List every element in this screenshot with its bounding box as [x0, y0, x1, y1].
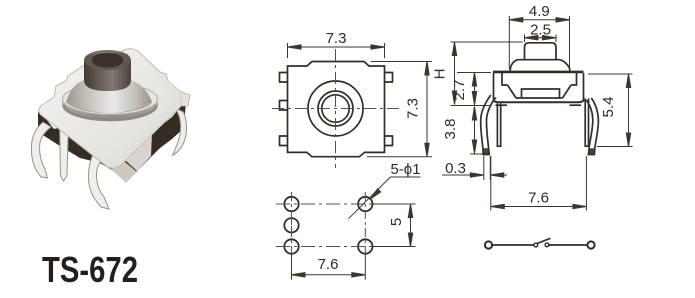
- svg-text:5-ϕ1: 5-ϕ1: [390, 161, 420, 178]
- face shading right: [110, 52, 185, 168]
- circuit symbol (SPST switch): [485, 238, 595, 248]
- svg-text:TS-672: TS-672: [42, 249, 138, 290]
- label 5-phi1 with leader: [349, 177, 421, 219]
- svg-text:7.3: 7.3: [405, 98, 422, 119]
- dimension 7.6 (footprint bottom): [292, 254, 366, 280]
- right tab box: [571, 73, 577, 85]
- svg-text:7.6: 7.6: [318, 256, 339, 273]
- right tab top: [385, 73, 393, 83]
- button top rim: [84, 50, 131, 70]
- light front wedge: [114, 119, 152, 171]
- dimension 2.7 (body height): [457, 73, 491, 106]
- right foot bar: [570, 104, 582, 106]
- cap (dome housing): [510, 60, 569, 72]
- hole inner shadow: [92, 54, 124, 61]
- outer circle: [308, 81, 363, 136]
- button ring outer: [318, 91, 353, 126]
- back-left leg: [60, 118, 69, 181]
- 3D photo of switch: [31, 49, 190, 209]
- svg-text:H: H: [432, 69, 449, 80]
- switch lever: [537, 238, 551, 244]
- button hole: [92, 54, 124, 68]
- inner dome right slant: [563, 85, 572, 98]
- dimension 0.3 (leg thickness): [442, 156, 507, 180]
- svg-text:0.3: 0.3: [445, 160, 466, 177]
- dimension 2.5 (stem width): [525, 35, 557, 43]
- flange top surface: [63, 84, 158, 115]
- front-center leg: [88, 151, 109, 209]
- hole bottom-left: [284, 239, 298, 253]
- left terminal: [485, 241, 492, 248]
- top view drawing: [280, 62, 393, 157]
- cone: [66, 80, 152, 113]
- svg-text:7.6: 7.6: [528, 190, 549, 207]
- left tab bottom: [280, 136, 288, 146]
- body top face: [39, 49, 185, 169]
- hole bottom-right: [358, 239, 372, 253]
- dimension 5.4 (right, cap to leg): [588, 74, 633, 147]
- button rim highlight: [86, 51, 129, 57]
- left back leg (straight): [497, 103, 500, 146]
- left foot bar: [496, 104, 508, 106]
- dimension 4.9 (cap width): [509, 16, 569, 69]
- inner dome bottom: [516, 97, 563, 99]
- svg-text:5.4: 5.4: [600, 97, 617, 118]
- right front leg (curved): [591, 98, 598, 148]
- svg-text:5: 5: [388, 218, 405, 226]
- footprint: 5 holes: [284, 197, 372, 254]
- dark under-body base: [38, 100, 186, 182]
- right corner tab: [181, 92, 190, 106]
- right tab bottom: [385, 136, 393, 146]
- dimension 7.3 horizontal (top): [288, 43, 385, 58]
- contact pole left: [534, 243, 538, 247]
- hole middle-left: [284, 218, 298, 232]
- front-left leg: [31, 122, 51, 178]
- left tab box: [502, 73, 508, 85]
- left tab top: [280, 73, 288, 83]
- contact pole right: [545, 243, 549, 247]
- body bottom rounded: [494, 100, 584, 103]
- dimension H (left, stem top to body bottom): [451, 42, 523, 106]
- wire right: [549, 244, 587, 246]
- button ring inner: [322, 95, 349, 122]
- svg-text:7.3: 7.3: [326, 30, 347, 47]
- right terminal: [587, 241, 594, 248]
- button cylinder side: [84, 60, 131, 91]
- dimension 7.6 (side view leg span): [491, 156, 587, 211]
- flange bottom crease: [64, 105, 157, 120]
- inner dome left slant: [508, 85, 517, 98]
- footprint center lines: [276, 192, 381, 258]
- dimension 7.3 vertical (right of top view): [367, 62, 432, 157]
- left tab middle: [280, 101, 288, 111]
- wire left: [493, 244, 534, 246]
- stem (button shaft): [525, 43, 557, 60]
- right back leg (straight): [585, 99, 588, 147]
- center lines of top view: [272, 49, 400, 168]
- svg-text:4.9: 4.9: [529, 3, 550, 20]
- flange lower lip: [62, 89, 158, 120]
- hole top-right: [358, 197, 372, 211]
- hole top-left: [284, 197, 298, 211]
- cone base shadow arc: [66, 102, 152, 113]
- dimension 3.8 (leg length): [470, 107, 483, 155]
- inner window rectangle: [522, 89, 560, 98]
- light bottom tip: [111, 152, 137, 183]
- body left side: [493, 73, 495, 100]
- svg-text:2.7: 2.7: [451, 80, 468, 101]
- svg-text:2.5: 2.5: [530, 22, 551, 39]
- switch body outline (top view): [288, 62, 385, 157]
- dark wedge over light band: [128, 118, 152, 134]
- dimension 5 (footprint right): [373, 204, 416, 247]
- right leg: [173, 108, 187, 156]
- svg-text:3.8: 3.8: [442, 119, 459, 140]
- body top thick line: [493, 71, 584, 74]
- body right side: [583, 73, 585, 100]
- left front leg (curved): [481, 95, 491, 148]
- side view drawing: [481, 43, 599, 155]
